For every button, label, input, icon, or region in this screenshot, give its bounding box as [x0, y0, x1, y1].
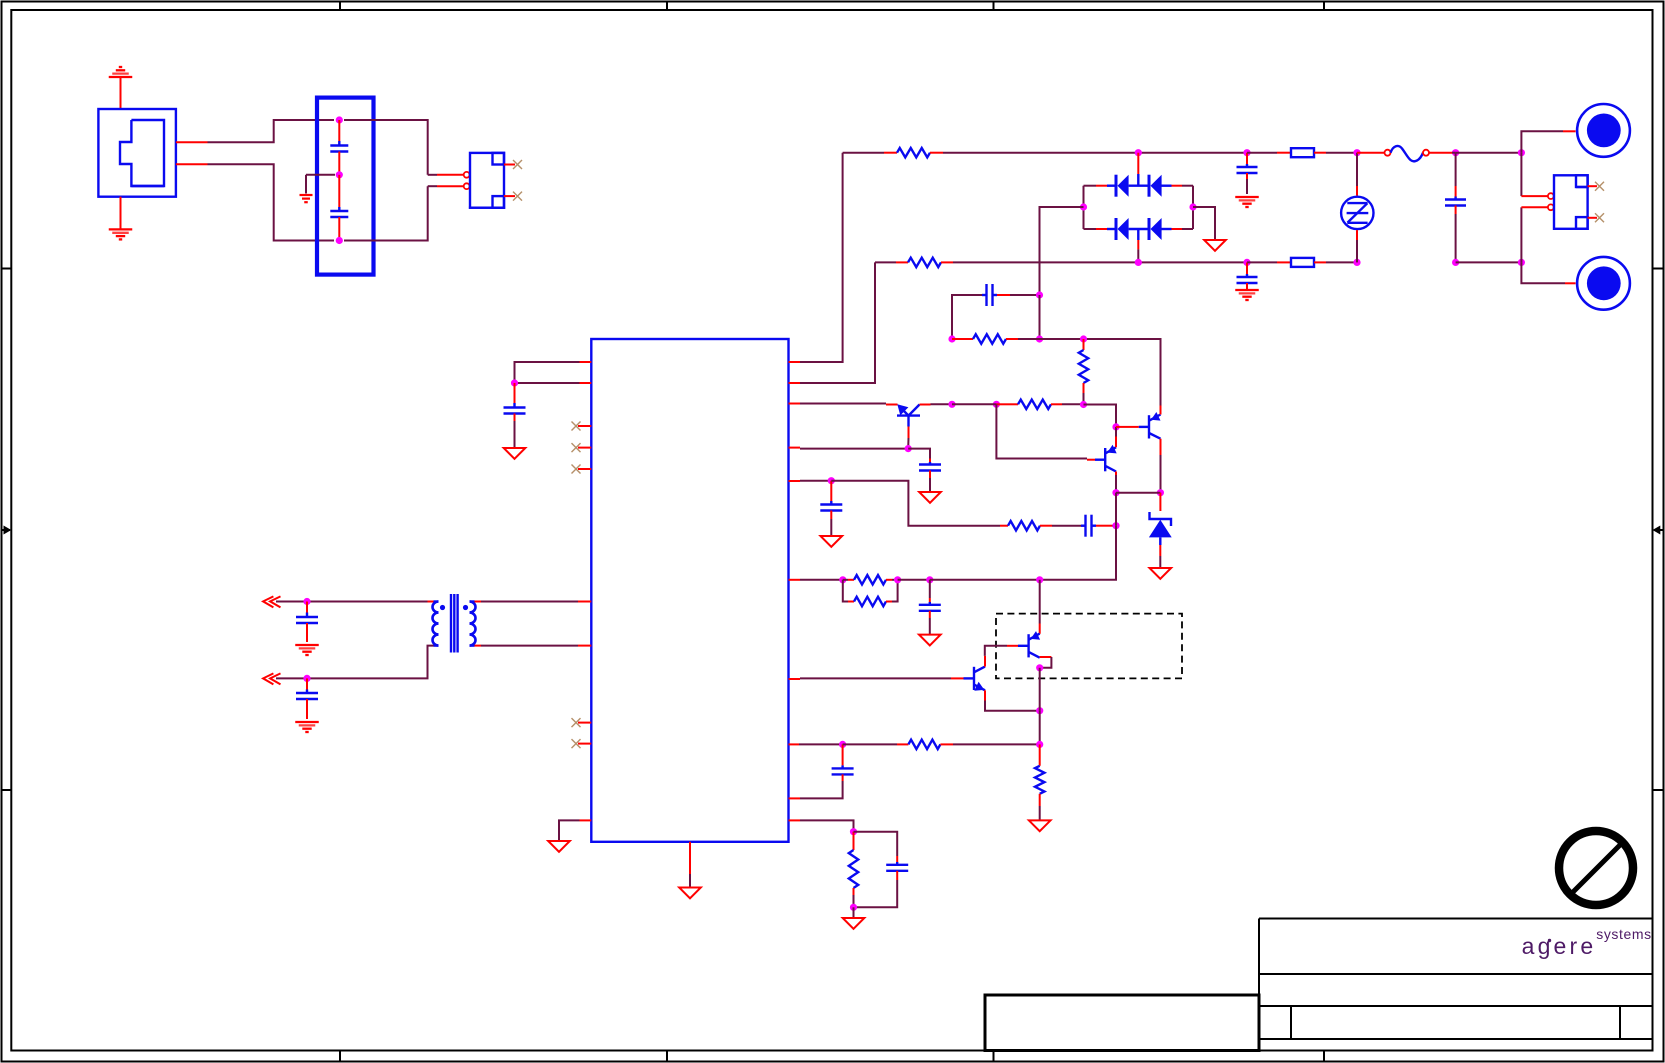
sidactor RV1 (Z circle): [1341, 153, 1373, 263]
module box T1 (thick blue): [317, 98, 374, 275]
node net831 b: [850, 904, 857, 911]
border right arrow: [1653, 526, 1664, 535]
wire R1 to C7 node: [1138, 152, 1247, 154]
wire net339 to Q2: [1040, 339, 1161, 406]
wire to ground: [853, 907, 855, 917]
wire bridge bottom lead: [1137, 229, 1139, 262]
diode bridge D4: [1129, 218, 1193, 240]
node net579 a: [839, 576, 846, 583]
J2 no-connect pin top: [504, 160, 522, 169]
ground (U1 bottom): [679, 888, 701, 899]
capacitor C2 (inside T1, lower): [330, 175, 348, 241]
node C8: [1243, 259, 1250, 266]
node F1 out: [1353, 149, 1360, 156]
node net579 c: [926, 576, 933, 583]
Q4 emitter wire: [985, 690, 1040, 710]
wire R2 to C8 node: [1138, 261, 1247, 263]
resistor R9: [843, 740, 1040, 749]
resistor R6: [1000, 521, 1081, 530]
node C7: [1243, 149, 1250, 156]
capacitor C8: [1237, 262, 1258, 289]
capacitor C1 (inside T1, upper): [330, 120, 348, 175]
resistor R1: [843, 148, 1139, 157]
J3 pin circle 2: [1548, 204, 1554, 210]
ground (RC power gnd): [843, 918, 865, 929]
capacitor C12: [820, 481, 842, 536]
capacitor C9: [1445, 153, 1466, 263]
node F2 out: [1353, 259, 1360, 266]
wire NET2 to T2: [276, 646, 434, 679]
ground E4 (earth): [1235, 197, 1259, 207]
ground C3 (power gnd): [504, 448, 526, 459]
capacitor C10: [952, 284, 1040, 339]
node net579 b: [894, 576, 901, 583]
node net404 a: [948, 401, 955, 408]
capacitor C7: [1237, 153, 1258, 194]
Q2 emitter wire: [1160, 406, 1162, 415]
node net339 c: [1080, 335, 1087, 342]
capacitor C11: [908, 449, 941, 492]
node C9 bottom: [1452, 259, 1459, 266]
node net448: [905, 445, 912, 452]
transistor Q3: [897, 404, 920, 438]
wire T1 top to J2: [344, 120, 464, 175]
dashed option box: [996, 614, 1182, 679]
node net481: [828, 477, 835, 484]
fuse F2: [1247, 258, 1357, 267]
J2 pin circle 1: [464, 172, 470, 178]
wire net525 to net579: [1040, 526, 1116, 580]
J1 pin wire (tip): [176, 141, 208, 143]
J1 pin wire (ring): [176, 163, 208, 165]
U1 left pin wire A: [515, 362, 592, 383]
resistor R4 (vertical): [1079, 339, 1088, 405]
node T1 bottom: [336, 237, 343, 244]
U1 no-connect pin 3: [572, 465, 592, 474]
connector J3: [1554, 175, 1588, 229]
transistor Q1: [1095, 445, 1117, 472]
node Q2 col: [1157, 489, 1164, 496]
ground E5 (earth): [1235, 290, 1259, 300]
wire Q1 base: [996, 404, 1095, 459]
wire net481 east: [831, 481, 1000, 526]
transistor Q5: [1018, 631, 1040, 658]
U1 no-connect pin 2: [572, 443, 592, 452]
net chevron NET1: [263, 596, 280, 607]
node U1-left: [511, 379, 518, 386]
wire net579 east: [930, 579, 1040, 581]
wire net579 to Q5: [1039, 580, 1041, 634]
wire to CN1: [1521, 131, 1575, 152]
wire T2 to U1 bottom: [475, 645, 592, 647]
ground E7 (earth): [295, 722, 319, 732]
diode bridge D3: [1084, 218, 1129, 240]
capacitor C13: [1081, 515, 1116, 537]
Q1 collector wire: [1115, 472, 1117, 493]
wire to J3 pin2: [1521, 207, 1547, 262]
U1 no-connect pin 1: [572, 422, 592, 431]
J3 no-connect bottom: [1588, 213, 1604, 222]
ground (C12 power gnd): [821, 536, 843, 547]
bridge left side: [1083, 186, 1085, 229]
agere systems logo: [1522, 926, 1652, 959]
net chevron NET2: [263, 673, 280, 684]
ground (U1 lower-left): [548, 841, 570, 852]
wire NET1 to T2: [276, 601, 434, 603]
wire bridge top lead: [1137, 153, 1139, 186]
wire U1 to Q3: [789, 404, 898, 405]
wire bridge left to cap net: [1040, 207, 1084, 295]
Q4 collector wire: [984, 656, 986, 667]
node net525: [1112, 522, 1119, 529]
U1 bottom pin wire: [689, 842, 691, 887]
wire to J3 pin1: [1521, 153, 1547, 196]
resistor R10 (vertical): [1035, 744, 1044, 820]
node T1 top: [336, 116, 343, 123]
wire net404 to Q1Q2: [1084, 405, 1117, 427]
J3 no-connect top: [1576, 182, 1604, 191]
ground (bridge, power gnd): [1204, 240, 1226, 251]
wire Q5 down: [1039, 668, 1041, 745]
Q1 emitter wire: [1115, 427, 1117, 447]
wire U1 pin to net448: [789, 448, 909, 449]
node Q1 col: [1112, 489, 1119, 496]
node net404 c: [1080, 401, 1087, 408]
Q2 collector wire: [1160, 439, 1162, 493]
bridge right side: [1192, 186, 1194, 229]
node Q2 base: [1112, 423, 1119, 430]
wire T2 to U1 top: [475, 601, 592, 603]
ground E1 (earth, above J1): [109, 67, 133, 109]
diode bridge D1: [1084, 175, 1129, 197]
wire U1 pin to Q4 base: [789, 677, 964, 680]
ground (C14 power gnd): [919, 635, 941, 646]
wire J1 ring to T1: [208, 164, 335, 240]
wire U1 pin net481: [789, 480, 832, 482]
ground E6 (earth): [295, 645, 319, 655]
node net831 a: [850, 828, 857, 835]
node line B: [1518, 259, 1525, 266]
capacitor C16: [854, 832, 909, 908]
ground E3 (earth small, T1): [300, 195, 313, 202]
wire bridge right to ground: [1193, 207, 1215, 239]
wire U1 pin net579: [789, 579, 843, 581]
fuse F1: [1247, 148, 1357, 157]
zener ZD1: [1149, 493, 1172, 568]
wire SW to line connectors: [1456, 152, 1522, 154]
U1 no-connect pin 5: [572, 739, 592, 748]
border left arrow: [2, 526, 11, 535]
wire net525 up: [1115, 493, 1117, 526]
capacitor C5 (left): [296, 678, 318, 719]
node bridge top: [1135, 149, 1142, 156]
node net339 a: [948, 335, 955, 342]
J2 pin circle 2: [464, 183, 470, 189]
svg-text:systems: systems: [1596, 926, 1652, 942]
capacitor C4 (left): [296, 602, 318, 643]
node net339 b: [1036, 335, 1043, 342]
switch SW1 (hook): [1357, 146, 1456, 161]
node net744 b: [1036, 741, 1043, 748]
wire net579 mid: [898, 579, 930, 581]
resistor R3: [952, 334, 1040, 343]
title block outline: [1259, 919, 1653, 1040]
ground (ZD1 power gnd): [1150, 568, 1172, 579]
J2 no-connect pin bottom: [504, 192, 522, 201]
node C10 right: [1036, 291, 1043, 298]
capacitor C14: [919, 580, 941, 634]
node bridge bottom: [1135, 259, 1142, 266]
ground (C11 power gnd): [919, 492, 941, 503]
ground E2 (earth, below J1): [109, 197, 133, 240]
resistor R7 (parallel pair top): [843, 575, 898, 584]
ground (R10 power gnd): [1029, 820, 1051, 831]
wire Q3 base net: [907, 438, 909, 449]
IC U1 (modem chip): [591, 339, 788, 842]
wire J1 tip to T1: [208, 120, 335, 142]
wire T1 bottom to J2: [344, 186, 464, 240]
node Q4 emitter junction: [1036, 707, 1043, 714]
capacitor C3 (U1 left): [504, 383, 526, 448]
resistor R11 (vertical): [849, 832, 858, 908]
capacitor C15: [789, 744, 854, 798]
resistor R8 (parallel pair bottom): [843, 580, 898, 606]
diode bridge D2: [1129, 175, 1193, 197]
U1 left pin wire B: [515, 382, 592, 384]
wire to CN2: [1521, 262, 1575, 283]
wire net404: [952, 403, 996, 405]
J3 pin circle 1: [1548, 193, 1554, 199]
transistor Q4: [964, 667, 986, 691]
no-symbol logo (circle slash): [1559, 831, 1633, 905]
wire line bottom: [1456, 261, 1522, 263]
svg-text:agere: agere: [1522, 933, 1597, 959]
node NET2-C: [303, 675, 310, 682]
revision box (thick rectangle): [985, 995, 1259, 1051]
wire U1 pin to R1 net: [789, 153, 843, 362]
node T1 mid: [336, 171, 343, 178]
node NET1-C: [303, 598, 310, 605]
node net579 d: [1036, 576, 1043, 583]
node Q5 col: [1036, 664, 1043, 671]
node net744 a: [839, 741, 846, 748]
connector CN2 (banana bottom): [1577, 257, 1630, 310]
Q5 base wire: [985, 646, 1018, 656]
Q3 collector wire: [920, 403, 953, 405]
node bridge right: [1189, 203, 1196, 210]
transformer T2: [433, 594, 476, 653]
resistor R5: [996, 400, 1083, 409]
node bridge left: [1080, 203, 1087, 210]
resistor R2: [875, 258, 1138, 267]
wire T1 mid to ground: [306, 175, 335, 194]
node SW in: [1452, 149, 1459, 156]
node line A: [1518, 149, 1525, 156]
connector CN1 (banana top): [1577, 104, 1630, 157]
wire Q1-Q2 collectors: [1116, 492, 1160, 494]
connector J1 (RJ11 jack): [98, 109, 175, 197]
wire U1 pin to R2 net: [789, 262, 876, 383]
Q5 collector square: [1040, 657, 1052, 668]
U1 no-connect pin 4: [572, 718, 592, 727]
wire Q2 base stub: [1116, 426, 1139, 428]
transistor Q2: [1139, 412, 1161, 439]
wire bridge-left down: [1039, 295, 1041, 339]
wire U1 pin net820: [789, 820, 854, 831]
node net404 b: [993, 401, 1000, 408]
wire U1 pin net744: [789, 743, 843, 745]
connector J2: [469, 153, 505, 208]
U1 lower-left ground wire: [559, 820, 591, 840]
